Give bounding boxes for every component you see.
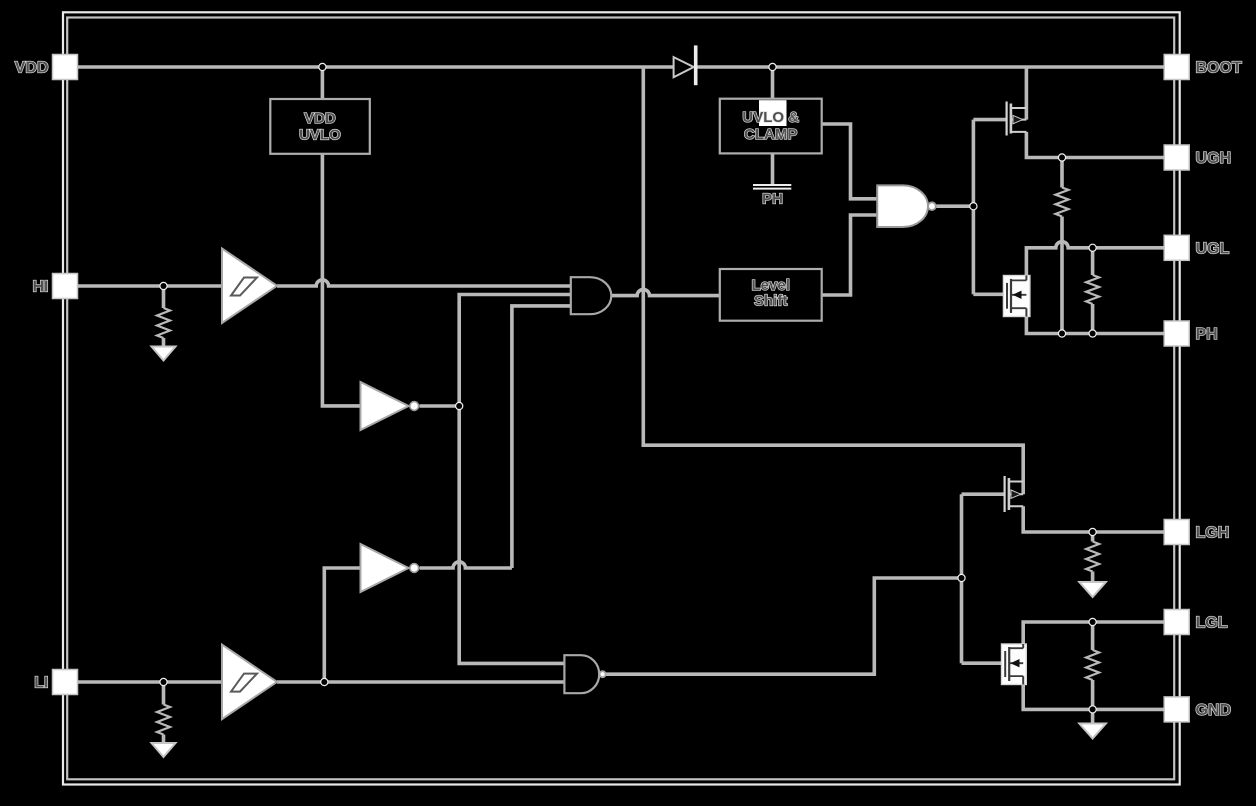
AND gate U4 (3-input) — [571, 277, 612, 314]
white artifact patch in UVLO CLAMP block — [759, 100, 787, 126]
wire HI pin to Schmitt buffer U1 input — [78, 284, 223, 288]
wire gate lead of Q4 — [962, 661, 1006, 665]
junction R4 top on UGL rail — [1088, 244, 1096, 252]
wire BOOT tap down to UVLO CLAMP block — [771, 67, 775, 99]
wire gate lead of Q1 — [973, 118, 1006, 122]
resistor R5 LGH pulldown — [1086, 542, 1099, 572]
wire Q2 source to PH pin — [1026, 308, 1164, 333]
block UVLO and CLAMP — [720, 99, 822, 154]
wire BOOT rail (diode cathode to BOOT pin) — [698, 65, 1165, 69]
Schmitt buffer U1 at HI — [222, 249, 277, 324]
pin VDD — [15, 55, 78, 80]
wire low-side gate node vertical — [960, 494, 964, 663]
wire NAND U7 output to high-side gate node — [936, 204, 974, 208]
pin BOOT — [1164, 55, 1242, 80]
inverter U2 — [361, 382, 419, 430]
ground symbol at LGH pulldown — [1079, 582, 1106, 597]
inverter U3 — [361, 544, 419, 592]
junction R5 top on LGH rail — [1088, 528, 1096, 536]
resistor R6 LGL to GND — [1086, 650, 1099, 680]
wire VDD branch to low-side driver supply — [643, 67, 1023, 494]
ground symbol at HI pulldown — [152, 347, 176, 361]
wire BOOT to Q1 drain — [1025, 67, 1029, 120]
svg-text:LGL: LGL — [1196, 615, 1228, 632]
transistor Q2 (high-side N-channel, UGL to PH) — [1003, 276, 1030, 317]
wire Q3 source to LGH pin — [1023, 506, 1164, 532]
junction R6 top on LGL rail — [1088, 618, 1096, 626]
transistor Q4 (low-side N-channel, LGL to GND) — [1002, 644, 1027, 685]
pin UGH — [1164, 145, 1231, 170]
pin HI — [33, 274, 78, 299]
transistor Q1 (high-side P-channel, BOOT to UGH) — [1007, 102, 1027, 136]
ground symbol below GND rail — [1079, 724, 1106, 739]
wire inverter U2 output to node A — [420, 404, 460, 408]
svg-text:VDD: VDD — [15, 60, 49, 77]
junction at HI pulldown — [159, 282, 167, 290]
svg-text:PH: PH — [762, 191, 783, 208]
wire UGL pin to Q2 drain (hop over resistor R3) — [1026, 242, 1164, 281]
resistor R3 UGH to PH — [1056, 188, 1069, 217]
transistor Q3 (low-side P-channel, VDD to LGH) — [1005, 476, 1024, 512]
wire LGL pin to Q4 drain — [1023, 622, 1164, 648]
junction node A at inverter U2 output — [455, 402, 463, 410]
wire resistor R6 leads LGL to GND — [1091, 622, 1095, 709]
wire node A up to AND gate U4 input 2 — [459, 295, 571, 407]
svg-text:VDD: VDD — [304, 110, 336, 127]
wire riser up to AND gate U4 input 3 — [512, 306, 571, 568]
junction R3 top on UGH rail — [1058, 153, 1066, 161]
resistor R2 LI pulldown — [157, 705, 170, 735]
wire NAND U6 output to low-side gate node — [606, 578, 962, 674]
wire inverter U3 output to riser (hop over node A line) — [420, 562, 512, 568]
pin LGH — [1164, 520, 1229, 545]
wire gate lead of Q2 — [973, 292, 1006, 296]
svg-text:UGH: UGH — [1196, 150, 1232, 167]
junction on BOOT rail at UVLO CLAMP tap — [768, 63, 776, 71]
svg-text:PH: PH — [1196, 326, 1218, 343]
wire node A down to NAND gate U6 input 1 — [459, 406, 564, 663]
junction on VDD rail at UVLO tap — [318, 63, 326, 71]
pin GND — [1164, 697, 1231, 722]
svg-text:UGL: UGL — [1196, 240, 1230, 257]
svg-text:UVLO: UVLO — [299, 127, 341, 144]
diode D1 anode triangle — [674, 57, 694, 77]
wire Q4 source to GND pin — [1023, 676, 1164, 709]
pin UGL — [1164, 235, 1229, 260]
block VDD UVLO — [270, 99, 370, 154]
wire resistor R3 leads UGH to PH — [1060, 158, 1064, 334]
pin LI — [34, 670, 77, 695]
wire UVLO CLAMP output to NAND U7 input A — [822, 124, 878, 199]
junction R4 bottom on PH rail — [1088, 329, 1096, 337]
ground symbol at LI pulldown — [152, 743, 176, 757]
svg-text:HI: HI — [33, 279, 49, 296]
NAND gate U7 — [877, 185, 936, 227]
junction R6 bottom on GND rail — [1088, 705, 1096, 713]
block Level Shift — [720, 269, 822, 321]
pin PH — [1164, 321, 1218, 346]
wire gate lead of Q3 — [962, 492, 1005, 496]
junction at NAND U7 output — [969, 202, 977, 210]
wire VDD UVLO output down to inverter U2 input (passes under hop) — [322, 154, 360, 406]
svg-text:LGH: LGH — [1196, 525, 1230, 542]
junction at LI pulldown — [159, 678, 167, 686]
wire ground stub below GND rail — [1091, 709, 1095, 723]
resistor R4 UGL to PH — [1086, 275, 1099, 304]
resistor R1 HI pulldown — [157, 308, 170, 338]
wire VDD rail (VDD pin to diode anode) — [78, 65, 674, 69]
svg-text:BOOT: BOOT — [1196, 60, 1242, 77]
wire LI pin to Schmitt buffer U5 input — [78, 680, 223, 684]
wire U1 output to AND gate U4 input 1 (hop over UVLO line) — [277, 280, 571, 286]
wire resistor R2 leads at LI input — [162, 682, 166, 743]
wire VDD tap to VDD UVLO block — [321, 67, 325, 99]
pin LGL — [1164, 610, 1228, 635]
junction at low-side gate node — [957, 574, 965, 582]
svg-text:GND: GND — [1196, 702, 1232, 719]
wire resistor R5 leads at LGH — [1091, 532, 1095, 582]
wire AND gate U4 output to Level Shift block (hop over VDD branch) — [611, 289, 720, 295]
svg-text:Shift: Shift — [754, 293, 787, 310]
wire Q1 source to UGH pin — [1026, 132, 1164, 158]
wire LI branch up to inverter U3 input — [324, 568, 360, 682]
wire resistor R1 leads at HI input — [162, 286, 166, 347]
wire Level Shift output to NAND U7 input B — [822, 215, 878, 295]
wire high-side gate node vertical — [972, 120, 976, 295]
junction R3 bottom on PH rail — [1058, 329, 1066, 337]
wire resistor R4 leads UGL to PH — [1091, 248, 1095, 334]
Schmitt buffer U5 at LI — [222, 645, 277, 720]
svg-text:CLAMP: CLAMP — [744, 126, 797, 143]
svg-text:LI: LI — [34, 675, 48, 692]
PH rail symbol under UVLO CLAMP — [771, 154, 775, 184]
junction at LI branch node — [320, 678, 328, 686]
NAND gate U6 (2-input) — [564, 655, 605, 693]
diode D1 cathode bar — [694, 45, 698, 85]
wire U5 output to NAND gate U6 input 2 — [277, 680, 564, 684]
